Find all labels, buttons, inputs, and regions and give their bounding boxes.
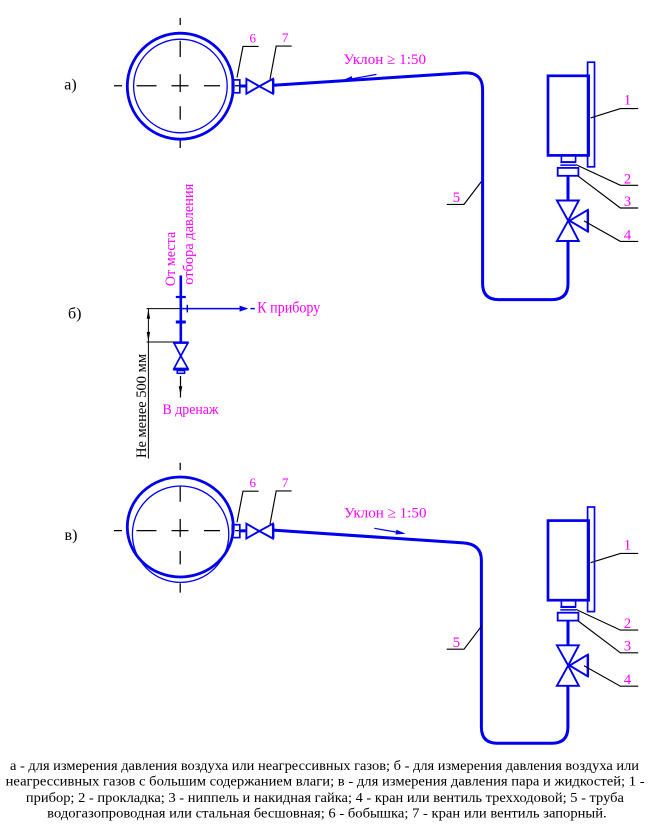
svg-text:б): б) — [68, 306, 81, 323]
gasket 2 — [560, 162, 576, 165]
leader 3 lower — [578, 621, 638, 653]
svg-text:Уклон ≥ 1:50: Уклон ≥ 1:50 — [344, 506, 427, 522]
boss 6 (bobyshka) — [232, 80, 240, 93]
svg-text:В дренаж: В дренаж — [163, 402, 220, 418]
leader 4 lower — [584, 666, 638, 687]
leader 5 lower — [447, 626, 482, 649]
leader 7 — [270, 46, 292, 79]
pipe nut to valve lower — [567, 621, 570, 646]
pipe circle V centerline horizontal — [114, 530, 243, 532]
svg-text:отбора давления: отбора давления — [181, 184, 197, 285]
svg-text:3: 3 — [624, 639, 631, 655]
svg-text:7: 7 — [282, 30, 289, 45]
pipe circle A centerline vertical — [179, 18, 181, 148]
union nut 3 lower — [558, 613, 579, 621]
pipe 5 run V — [273, 530, 568, 743]
svg-text:6: 6 — [249, 30, 256, 45]
svg-text:4: 4 — [624, 672, 632, 688]
leader 1 — [591, 109, 639, 118]
gasket 2 lower — [560, 607, 576, 610]
union tick 1 — [176, 296, 186, 298]
pipe 5 run A — [273, 73, 568, 300]
union nut 3 — [558, 168, 579, 176]
pipe nut to valve — [567, 176, 570, 201]
leader 2 lower — [576, 609, 638, 630]
mounting plate lower — [588, 507, 595, 612]
svg-text:4: 4 — [624, 227, 632, 243]
three-way valve 4 lower — [557, 645, 588, 686]
pipe circle V centerline vertical — [179, 463, 181, 593]
svg-text:неагрессивных газов с большим: неагрессивных газов с большим содержание… — [6, 775, 645, 790]
connector stub — [240, 85, 247, 88]
flow arrow A — [352, 74, 377, 78]
leader 5 — [447, 182, 482, 205]
dim extension line top — [147, 308, 180, 310]
leader 2 — [576, 165, 638, 186]
mounting plate — [588, 62, 595, 167]
dim arrow down — [147, 332, 150, 342]
three-way valve 4 — [557, 201, 588, 242]
dim extension line bottom — [147, 341, 173, 343]
svg-text:1: 1 — [624, 537, 631, 553]
union tick 2 — [176, 321, 186, 324]
tap line — [180, 276, 183, 343]
leader 4 — [584, 221, 638, 242]
svg-text:От места: От места — [163, 231, 179, 286]
svg-text:2: 2 — [624, 171, 631, 187]
pipe circle V outer — [127, 477, 233, 577]
boss 6 lower — [232, 525, 240, 538]
svg-text:2: 2 — [624, 616, 631, 632]
leader 1 lower — [591, 553, 639, 562]
svg-text:Не менее 500 мм: Не менее 500 мм — [134, 354, 150, 458]
nipple lower — [561, 600, 575, 606]
instrument body 1 — [548, 76, 589, 156]
pipe circle A outer — [127, 33, 233, 139]
dimension line — [147, 309, 149, 459]
svg-text:5: 5 — [453, 635, 461, 651]
branch line to instrument — [181, 308, 247, 310]
nipple — [561, 156, 575, 162]
leader 6 — [237, 46, 259, 77]
pipe circle A centerline horizontal — [114, 85, 243, 87]
branch tick — [186, 305, 188, 313]
drain valve — [173, 343, 189, 374]
pipe circle V inner — [132, 486, 228, 582]
instrument body 1 lower — [548, 521, 589, 601]
svg-text:6: 6 — [249, 475, 256, 490]
connector stub lower — [240, 529, 247, 532]
leader 3 — [578, 176, 638, 208]
svg-text:7: 7 — [282, 475, 289, 490]
svg-text:а): а) — [64, 77, 76, 94]
svg-text:прибор; 2 - прокладка; 3 - нип: прибор; 2 - прокладка; 3 - ниппель и нак… — [26, 791, 625, 806]
svg-text:а - для измерения давления воз: а - для измерения давления воздуха или н… — [10, 759, 640, 774]
svg-text:Уклон ≥ 1:50: Уклон ≥ 1:50 — [344, 52, 427, 68]
drain arrow — [180, 376, 182, 398]
leader 6 lower — [237, 491, 259, 522]
leader 7 lower — [270, 491, 292, 524]
valve 7 (shut-off) — [246, 79, 273, 94]
svg-text:К прибору: К прибору — [257, 300, 320, 317]
svg-text:5: 5 — [453, 190, 461, 206]
svg-text:в): в) — [65, 527, 78, 544]
flow arrow V — [374, 528, 398, 532]
svg-text:водогазопроводная или стальная: водогазопроводная или стальная бесшовная… — [47, 807, 607, 822]
svg-text:3: 3 — [624, 194, 631, 210]
branch arrow — [240, 306, 249, 312]
pipe circle A inner — [134, 39, 228, 133]
dim arrow up — [147, 309, 150, 319]
valve 7 lower — [246, 524, 273, 539]
svg-text:1: 1 — [624, 93, 631, 109]
